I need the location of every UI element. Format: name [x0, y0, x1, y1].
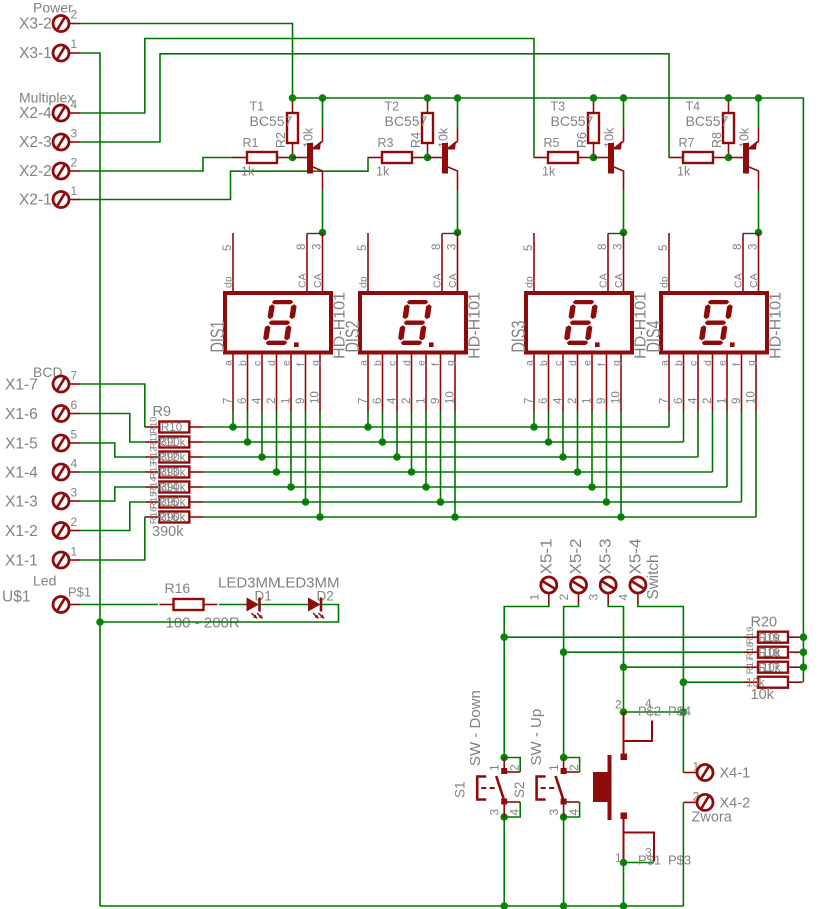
svg-text:R14: R14: [149, 477, 160, 494]
svg-text:8: 8: [296, 244, 308, 250]
svg-text:P$3: P$3: [668, 853, 691, 868]
svg-text:P$2: P$2: [638, 704, 661, 719]
svg-text:U$1: U$1: [2, 589, 30, 606]
svg-text:4: 4: [567, 809, 581, 816]
svg-text:1: 1: [547, 764, 561, 771]
svg-text:e: e: [416, 360, 428, 366]
svg-text:SW - Up: SW - Up: [528, 709, 545, 766]
svg-text:2: 2: [557, 594, 571, 601]
svg-text:2: 2: [702, 398, 714, 404]
svg-text:10: 10: [445, 391, 457, 404]
svg-text:X3-1: X3-1: [19, 45, 52, 62]
svg-text:1: 1: [615, 851, 622, 865]
svg-text:c: c: [553, 361, 565, 366]
svg-text:100 - 200R: 100 - 200R: [166, 615, 240, 632]
svg-text:CA: CA: [613, 273, 625, 288]
svg-text:R5: R5: [544, 136, 560, 150]
svg-text:1k: 1k: [677, 165, 691, 179]
svg-text:8: 8: [597, 244, 609, 250]
svg-text:T1: T1: [250, 100, 265, 114]
svg-text:b: b: [673, 360, 685, 366]
svg-text:BC557: BC557: [551, 113, 594, 129]
svg-text:3: 3: [447, 244, 459, 250]
svg-text:a: a: [223, 360, 235, 366]
svg-text:a: a: [358, 360, 370, 366]
svg-text:BC557: BC557: [250, 113, 293, 129]
svg-text:R16: R16: [165, 580, 191, 596]
svg-text:g: g: [611, 360, 623, 366]
svg-text:d: d: [567, 360, 579, 366]
svg-text:R12: R12: [149, 447, 160, 464]
svg-text:3: 3: [613, 244, 625, 250]
svg-text:S2: S2: [512, 781, 527, 798]
svg-text:5: 5: [222, 245, 234, 251]
svg-text:SW - Down: SW - Down: [467, 690, 484, 766]
svg-text:3: 3: [488, 809, 502, 816]
svg-text:b: b: [237, 360, 249, 366]
svg-text:4: 4: [688, 397, 700, 404]
svg-text:10k: 10k: [762, 632, 781, 644]
svg-text:9: 9: [731, 398, 743, 404]
svg-text:390k: 390k: [161, 467, 186, 479]
svg-text:8: 8: [732, 244, 744, 250]
svg-text:CA: CA: [447, 273, 459, 288]
svg-text:b: b: [538, 360, 550, 366]
svg-text:CA: CA: [297, 273, 309, 288]
svg-text:2: 2: [615, 698, 622, 712]
svg-text:X2-1: X2-1: [19, 192, 52, 209]
svg-text:DIS3: DIS3: [508, 321, 530, 353]
svg-text:X5-1: X5-1: [538, 538, 555, 574]
svg-text:D1: D1: [255, 589, 272, 604]
svg-text:1: 1: [71, 545, 78, 559]
svg-text:dp: dp: [524, 276, 536, 288]
svg-text:X1-6: X1-6: [5, 406, 38, 423]
svg-text:R7: R7: [679, 136, 695, 150]
svg-text:10: 10: [611, 391, 623, 404]
svg-text:P$1: P$1: [68, 585, 91, 600]
svg-text:dp: dp: [358, 276, 370, 288]
svg-text:10: 10: [310, 391, 322, 404]
svg-text:1k: 1k: [542, 165, 556, 179]
svg-text:c: c: [387, 361, 399, 366]
svg-text:X4-1: X4-1: [720, 766, 751, 782]
svg-text:2: 2: [71, 515, 78, 529]
svg-text:e: e: [281, 360, 293, 366]
svg-text:7: 7: [659, 398, 671, 404]
svg-text:2: 2: [567, 764, 581, 771]
svg-text:R15: R15: [149, 492, 160, 509]
svg-text:4: 4: [616, 594, 630, 601]
svg-text:3: 3: [748, 244, 760, 250]
svg-text:7: 7: [524, 398, 536, 404]
svg-text:S1: S1: [453, 781, 468, 798]
svg-text:R6: R6: [575, 132, 589, 148]
svg-text:dp: dp: [659, 276, 671, 288]
svg-text:DIS2: DIS2: [342, 321, 364, 353]
svg-text:R3: R3: [378, 136, 394, 150]
svg-text:10k: 10k: [762, 647, 781, 659]
svg-text:1: 1: [717, 398, 729, 404]
svg-text:R2: R2: [274, 132, 288, 148]
svg-text:g: g: [746, 360, 758, 366]
svg-text:3: 3: [312, 244, 324, 250]
svg-text:2: 2: [71, 156, 78, 170]
svg-text:f: f: [430, 363, 442, 366]
svg-text:8: 8: [431, 244, 443, 250]
svg-text:1: 1: [527, 594, 541, 601]
svg-text:5: 5: [71, 428, 78, 442]
svg-text:BC557: BC557: [686, 113, 729, 129]
svg-text:3: 3: [547, 809, 561, 816]
svg-text:g: g: [445, 360, 457, 366]
svg-text:6: 6: [372, 398, 384, 404]
svg-text:9: 9: [430, 398, 442, 404]
svg-text:D2: D2: [317, 589, 334, 604]
svg-text:7: 7: [358, 398, 370, 404]
svg-text:X5-3: X5-3: [598, 538, 615, 574]
svg-text:P$4: P$4: [668, 704, 691, 719]
svg-text:X1-5: X1-5: [5, 436, 38, 453]
svg-text:Switch: Switch: [645, 555, 662, 600]
svg-text:390k: 390k: [161, 452, 186, 464]
svg-text:R11: R11: [149, 432, 160, 449]
svg-text:a: a: [524, 360, 536, 366]
svg-text:4: 4: [553, 397, 565, 404]
svg-text:Power: Power: [33, 0, 73, 16]
svg-text:10k: 10k: [751, 687, 775, 703]
svg-text:e: e: [717, 360, 729, 366]
svg-text:CA: CA: [598, 273, 610, 288]
svg-text:d: d: [401, 360, 413, 366]
svg-text:2: 2: [508, 764, 522, 771]
svg-text:390k: 390k: [161, 512, 186, 524]
svg-text:7: 7: [71, 369, 78, 383]
svg-text:f: f: [295, 363, 307, 366]
svg-text:R8: R8: [710, 132, 724, 148]
svg-text:X1-2: X1-2: [5, 523, 38, 540]
svg-text:4: 4: [71, 457, 78, 471]
svg-text:Zwora: Zwora: [692, 810, 733, 826]
svg-text:a: a: [659, 360, 671, 366]
svg-text:R20: R20: [751, 615, 778, 631]
svg-text:2: 2: [71, 8, 78, 22]
svg-text:390k: 390k: [161, 437, 186, 449]
svg-text:X1-3: X1-3: [5, 494, 38, 511]
svg-text:X3-2: X3-2: [19, 16, 52, 33]
svg-text:2: 2: [401, 398, 413, 404]
svg-text:R1: R1: [243, 136, 259, 150]
svg-text:1: 1: [488, 764, 502, 771]
svg-text:g: g: [310, 360, 322, 366]
svg-text:6: 6: [538, 398, 550, 404]
svg-text:DIS4: DIS4: [643, 320, 665, 352]
svg-text:1k: 1k: [241, 165, 255, 179]
svg-text:f: f: [596, 363, 608, 366]
svg-text:HD-H101: HD-H101: [768, 292, 785, 359]
svg-text:P$1: P$1: [638, 853, 661, 868]
svg-text:390k: 390k: [152, 524, 184, 540]
svg-text:3: 3: [587, 594, 601, 601]
svg-text:4: 4: [252, 397, 264, 404]
svg-text:1: 1: [416, 398, 428, 404]
svg-text:R17: R17: [745, 657, 756, 674]
svg-text:X1-1: X1-1: [5, 553, 38, 570]
svg-text:5: 5: [357, 245, 369, 251]
svg-text:10: 10: [746, 391, 758, 404]
svg-text:X2-4: X2-4: [19, 105, 52, 122]
svg-text:CA: CA: [432, 273, 444, 288]
svg-text:R10: R10: [149, 417, 160, 434]
svg-text:Multiplex: Multiplex: [19, 90, 74, 106]
svg-text:c: c: [252, 361, 264, 366]
svg-text:R16: R16: [149, 507, 160, 524]
svg-text:9: 9: [295, 398, 307, 404]
svg-text:4: 4: [387, 397, 399, 404]
svg-text:R13: R13: [149, 462, 160, 479]
svg-text:CA: CA: [733, 273, 745, 288]
svg-text:T4: T4: [686, 100, 701, 114]
svg-text:6: 6: [673, 398, 685, 404]
svg-text:CA: CA: [312, 273, 324, 288]
svg-text:T2: T2: [385, 100, 400, 114]
svg-text:X2-3: X2-3: [19, 134, 52, 151]
svg-text:3: 3: [71, 486, 78, 500]
svg-text:dp: dp: [223, 276, 235, 288]
svg-text:b: b: [372, 360, 384, 366]
svg-text:390k: 390k: [161, 482, 186, 494]
svg-text:R10: R10: [161, 422, 182, 434]
svg-text:4: 4: [508, 809, 522, 816]
svg-text:f: f: [731, 363, 743, 366]
svg-text:3: 3: [71, 127, 78, 141]
svg-text:T3: T3: [551, 100, 566, 114]
svg-text:BC557: BC557: [385, 113, 428, 129]
svg-text:1: 1: [582, 398, 594, 404]
svg-text:d: d: [266, 360, 278, 366]
svg-text:6: 6: [71, 398, 78, 412]
svg-text:1k: 1k: [376, 165, 390, 179]
svg-text:1: 1: [71, 184, 78, 198]
svg-text:1: 1: [71, 37, 78, 51]
svg-text:DIS1: DIS1: [207, 321, 229, 353]
svg-text:5: 5: [658, 245, 670, 251]
svg-text:10k: 10k: [762, 662, 781, 674]
svg-text:1: 1: [281, 398, 293, 404]
svg-text:7: 7: [223, 398, 235, 404]
svg-text:R18: R18: [745, 642, 756, 659]
svg-text:5: 5: [523, 245, 535, 251]
svg-text:e: e: [582, 360, 594, 366]
svg-text:X5-2: X5-2: [568, 538, 585, 574]
svg-text:X1-4: X1-4: [5, 465, 38, 482]
svg-text:2: 2: [266, 398, 278, 404]
svg-text:X5-4: X5-4: [627, 538, 644, 574]
svg-text:d: d: [702, 360, 714, 366]
svg-text:9: 9: [596, 398, 608, 404]
svg-text:R4: R4: [409, 132, 423, 148]
svg-text:2: 2: [567, 398, 579, 404]
svg-text:Led: Led: [33, 573, 56, 589]
svg-text:390k: 390k: [161, 497, 186, 509]
svg-text:X2-2: X2-2: [19, 163, 52, 180]
svg-text:6: 6: [237, 398, 249, 404]
svg-text:CA: CA: [748, 273, 760, 288]
svg-text:4: 4: [71, 98, 78, 112]
svg-text:c: c: [688, 361, 700, 366]
svg-text:HD-H101: HD-H101: [467, 292, 484, 359]
svg-text:X1-7: X1-7: [5, 377, 38, 394]
